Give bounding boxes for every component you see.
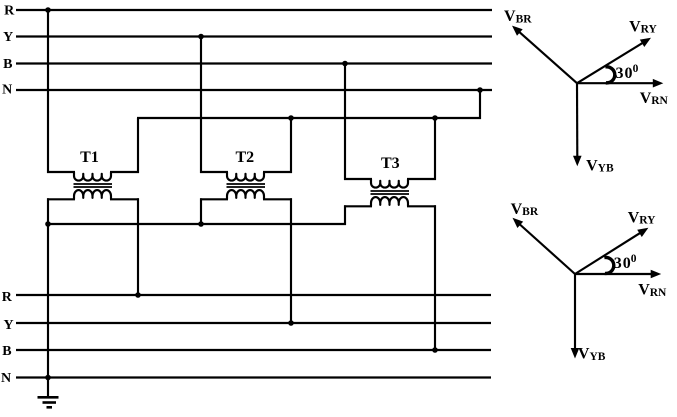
bus N (top) [16, 89, 492, 91]
junction T2 secondary / secondary neutral bus [198, 221, 204, 227]
wire T3 primary right to return bus [407, 178, 436, 180]
phasor V_BR (bottom diagram) [519, 224, 575, 275]
svg-text:Y: Y [3, 30, 13, 45]
phasor V_YB (bottom diagram) [574, 274, 576, 350]
svg-text:VYB: VYB [586, 157, 614, 174]
wire R bus to T1 primary left [47, 10, 49, 173]
svg-text:R: R [4, 4, 15, 19]
svg-text:VRY: VRY [629, 18, 657, 35]
bus R (bottom) [16, 294, 491, 296]
ground [47, 378, 49, 397]
svg-text:VBR: VBR [504, 8, 532, 25]
phasor V_YB (top diagram) [576, 83, 578, 158]
junction B bus / T3 primary [342, 61, 348, 67]
svg-text:T1: T1 [80, 149, 99, 166]
wire T1 primary right to return bus [110, 171, 139, 173]
wire T1 secondary right to R bus (bottom) [110, 198, 139, 200]
wire T1 secondary left to neutral [47, 198, 75, 200]
primary return bus (y=118) [137, 117, 481, 119]
secondary neutral bus (y=224) [47, 223, 346, 225]
svg-text:VBR: VBR [511, 201, 539, 218]
phasor V_RY (top diagram) [577, 42, 644, 83]
phasor V_BR (top diagram) [518, 31, 577, 83]
junction T1 secondary / secondary neutral bus [45, 221, 51, 227]
transformer T3 secondary winding [371, 197, 408, 206]
svg-text:Y: Y [4, 318, 14, 333]
transformer T3 core [371, 190, 410, 192]
wire T3 secondary left to neutral bus [344, 205, 372, 207]
svg-text:R: R [2, 290, 13, 305]
svg-text:0: 0 [631, 253, 637, 265]
svg-text:B: B [2, 344, 11, 359]
bus N (bottom) [16, 376, 491, 378]
wire Y bus to T2 primary left [200, 37, 202, 174]
svg-text:0: 0 [633, 63, 639, 75]
bus B (top) [16, 62, 492, 64]
bus Y (top) [16, 35, 492, 37]
junction T1 secondary / R bus (bottom) [135, 292, 141, 298]
svg-text:VRN: VRN [638, 282, 667, 299]
bus Y (bottom) [16, 322, 491, 324]
wire B bus to T3 primary left [344, 64, 346, 181]
junction Y bus / T2 primary [198, 34, 204, 40]
wire T2 secondary right to Y bus (bottom) [263, 198, 292, 200]
svg-text:N: N [2, 83, 12, 98]
wire N bus down to primary return bus [479, 90, 481, 119]
wire T3 secondary right to B bus (bottom) [407, 205, 436, 207]
phasor V_RN (bottom diagram) [575, 273, 653, 275]
bus R (top) [16, 9, 492, 11]
junction return bus / T3 primary right [432, 115, 438, 121]
transformer T1 core [74, 183, 113, 185]
svg-text:VYB: VYB [578, 346, 606, 363]
angle arc 30 deg (bottom diagram) [604, 257, 613, 273]
wire T2 primary right to return bus [263, 171, 292, 173]
svg-text:B: B [3, 57, 12, 72]
junction return bus / T2 primary right [288, 115, 294, 121]
junction T2 secondary / Y bus (bottom) [288, 320, 294, 326]
transformer T2 primary winding [227, 172, 264, 181]
svg-text:VRY: VRY [628, 209, 656, 226]
svg-text:N: N [1, 371, 11, 386]
bus B (bottom) [16, 349, 491, 351]
junction neutral / N bus (bottom) [45, 375, 51, 381]
transformer T2 core [227, 183, 266, 185]
transformer T3 primary winding [371, 179, 408, 188]
svg-text:30: 30 [614, 255, 632, 272]
svg-text:30: 30 [616, 65, 634, 82]
junction T3 secondary / B bus (bottom) [432, 347, 438, 353]
svg-text:T3: T3 [381, 155, 400, 172]
wire T2 secondary left to neutral bus [200, 198, 228, 200]
svg-text:T2: T2 [235, 149, 254, 166]
transformer T1 secondary winding [74, 190, 111, 199]
phasor V_RY (bottom diagram) [575, 232, 641, 274]
transformer T2 secondary winding [227, 190, 264, 199]
transformer T1 primary winding [74, 172, 111, 181]
angle arc 30 deg (top diagram) [605, 67, 614, 83]
junction N bus / primary return [477, 87, 483, 93]
phasor V_RN (top diagram) [577, 82, 655, 84]
svg-text:VRN: VRN [640, 90, 669, 107]
junction R bus / T1 primary [45, 7, 51, 13]
